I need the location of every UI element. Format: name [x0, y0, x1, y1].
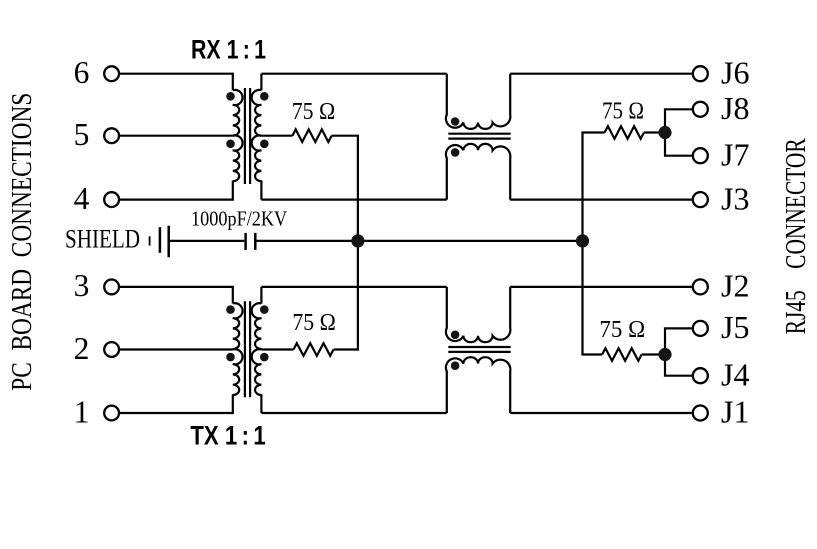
transformer T2 secondary lower phase dot [260, 353, 269, 362]
svg-text:75 Ω: 75 Ω [292, 309, 335, 336]
svg-text:RJ45 CONNECTOR: RJ45 CONNECTOR [781, 138, 812, 334]
wire shield to capacitor C1 [169, 240, 245, 242]
wire T1 bottom to choke L1 [261, 199, 446, 201]
RJ45 pin J5 terminal circle [693, 321, 708, 336]
wire T2 secondary bottom lead [260, 394, 262, 413]
svg-text:1000pF/2KV: 1000pF/2KV [191, 207, 288, 231]
pin 4 terminal circle [104, 192, 119, 207]
wire T2 secondary top lead [260, 287, 262, 304]
svg-text:J5: J5 [721, 310, 750, 345]
svg-text:TX 1 : 1: TX 1 : 1 [190, 420, 265, 450]
svg-text:4: 4 [74, 181, 90, 216]
pin 6 terminal circle [104, 66, 119, 81]
svg-text:SHIELD: SHIELD [65, 224, 140, 254]
svg-text:RX 1 : 1: RX 1 : 1 [191, 35, 266, 65]
wire node A vertical bus (left) [357, 136, 359, 350]
RJ45 pin J6 terminal circle [693, 66, 708, 81]
RJ45 pin J3 terminal circle [693, 192, 708, 207]
wire pin3 to T2 primary top [120, 287, 233, 304]
junction dot node A [351, 234, 364, 247]
transformer T1 secondary upper winding [252, 90, 262, 136]
resistor R-BL 75ohm zigzag [294, 343, 334, 356]
wire pin2 to T2 primary center tap [120, 348, 233, 350]
wire T2 top to choke L2 [261, 286, 446, 288]
RJ45 pin J4 terminal circle [693, 368, 708, 383]
svg-text:6: 6 [74, 55, 90, 90]
junction dot at R-BR / J5 / J4 node [658, 348, 671, 361]
transformer T1 primary lower phase dot [226, 140, 235, 149]
wire J8/J7 tee [665, 109, 692, 155]
pin 2 terminal circle [104, 342, 119, 357]
capacitor C1 right plate [254, 233, 257, 250]
svg-text:5: 5 [74, 117, 90, 152]
svg-text:J8: J8 [721, 91, 750, 126]
svg-text:J3: J3 [721, 181, 750, 216]
svg-text:J1: J1 [721, 395, 750, 430]
wire capacitor C1 to node A and node B [257, 240, 583, 242]
choke L2 lower winding phase dot [451, 361, 460, 370]
wire choke L1 to J6 [510, 73, 692, 75]
svg-text:J6: J6 [721, 55, 750, 90]
choke L1 lower winding phase dot [451, 148, 460, 157]
wire T2 bottom to choke L2 [261, 412, 446, 414]
transformer T1 secondary upper phase dot [260, 92, 269, 101]
RJ45 pin J2 terminal circle [693, 279, 708, 294]
capacitor C1 left plate [244, 233, 247, 250]
junction dot node B [576, 234, 589, 247]
choke L2 upper winding [446, 287, 510, 342]
svg-text:75 Ω: 75 Ω [292, 98, 336, 125]
transformer T2 primary upper phase dot [226, 305, 235, 314]
wire pin4 to T1 primary bottom [120, 181, 233, 200]
resistor R-TL lead to node A bus [332, 135, 359, 137]
transformer T2 secondary lower winding [252, 349, 262, 395]
resistor R-TR lead to J8/J7 node [644, 131, 665, 133]
transformer T1 primary upper phase dot [226, 92, 235, 101]
RJ45 pin J7 terminal circle [693, 148, 708, 163]
choke L1 core line 1 [448, 133, 510, 135]
wire node B vertical bus (right) [581, 133, 583, 355]
RJ45 pin J8 terminal circle [693, 102, 708, 117]
svg-text:2: 2 [74, 331, 90, 366]
resistor R-TL lead from T1 tap [261, 135, 292, 137]
pin 1 terminal circle [104, 406, 119, 421]
wire T1 secondary bottom lead [260, 181, 262, 200]
svg-text:PC BOARD CONNECTIONS: PC BOARD CONNECTIONS [7, 93, 38, 391]
junction dot at R-TR / J8 / J7 node [658, 126, 671, 139]
shield terminal bar 1 [159, 227, 162, 253]
resistor R-BR lead to J5/J4 node [642, 353, 665, 355]
shield terminal tick [149, 236, 151, 245]
wire pin6 to T1 primary top [120, 74, 233, 91]
svg-text:3: 3 [74, 268, 90, 303]
transformer T2 secondary upper phase dot [260, 305, 269, 314]
wire T1 secondary top lead [260, 74, 262, 91]
transformer T2 primary upper winding [233, 303, 243, 349]
transformer T1 primary upper winding [233, 90, 243, 136]
wire pin1 to T2 primary bottom [120, 394, 233, 413]
wire choke L2 to J1 [510, 412, 692, 414]
transformer T1 secondary lower winding [252, 135, 262, 181]
wire choke L1 to J3 [510, 199, 692, 201]
svg-text:75 Ω: 75 Ω [602, 97, 644, 124]
choke L1 core line 2 [448, 138, 510, 140]
transformer T2 primary lower winding [233, 349, 243, 395]
wire J5/J4 tee [665, 328, 692, 375]
transformer T1 core line 1 [244, 88, 246, 184]
RJ45 pin J1 terminal circle [693, 406, 708, 421]
transformer T1 secondary lower phase dot [260, 140, 269, 149]
choke L2 lower winding [446, 357, 510, 413]
choke L1 upper winding phase dot [451, 117, 460, 126]
svg-text:J4: J4 [721, 357, 750, 392]
transformer T2 core line 2 [249, 301, 251, 397]
transformer T2 secondary upper winding [252, 303, 262, 349]
transformer T1 core line 2 [249, 88, 251, 184]
svg-text:J2: J2 [721, 269, 750, 304]
resistor R-BR 75ohm zigzag [602, 348, 642, 361]
resistor R-TL 75ohm zigzag [292, 129, 331, 142]
pin 5 terminal circle [104, 128, 119, 143]
pin 3 terminal circle [104, 280, 119, 295]
resistor R-BL lead to node A bus [334, 348, 360, 350]
svg-text:J7: J7 [721, 137, 750, 172]
wire choke L2 to J2 [510, 286, 692, 288]
transformer T1 primary lower winding [233, 135, 243, 181]
choke L2 core line 2 [448, 351, 510, 353]
svg-text:1: 1 [74, 394, 90, 429]
wire pin5 to T1 primary center tap [120, 135, 233, 137]
choke L2 upper winding phase dot [451, 331, 460, 340]
wire T1 top to choke L1 [261, 73, 446, 75]
transformer T2 primary lower phase dot [226, 353, 235, 362]
resistor R-TR lead from node B bus [581, 131, 604, 133]
shield terminal bar 2 [167, 226, 170, 258]
resistor R-TR 75ohm zigzag [605, 126, 644, 139]
svg-text:75 Ω: 75 Ω [599, 316, 645, 343]
choke L1 upper winding [446, 74, 510, 129]
resistor R-BR lead from node B bus [581, 353, 602, 355]
transformer T2 core line 1 [244, 301, 246, 397]
resistor R-BL lead from T2 tap [261, 348, 293, 350]
choke L1 lower winding [446, 144, 510, 200]
choke L2 core line 1 [448, 346, 510, 348]
